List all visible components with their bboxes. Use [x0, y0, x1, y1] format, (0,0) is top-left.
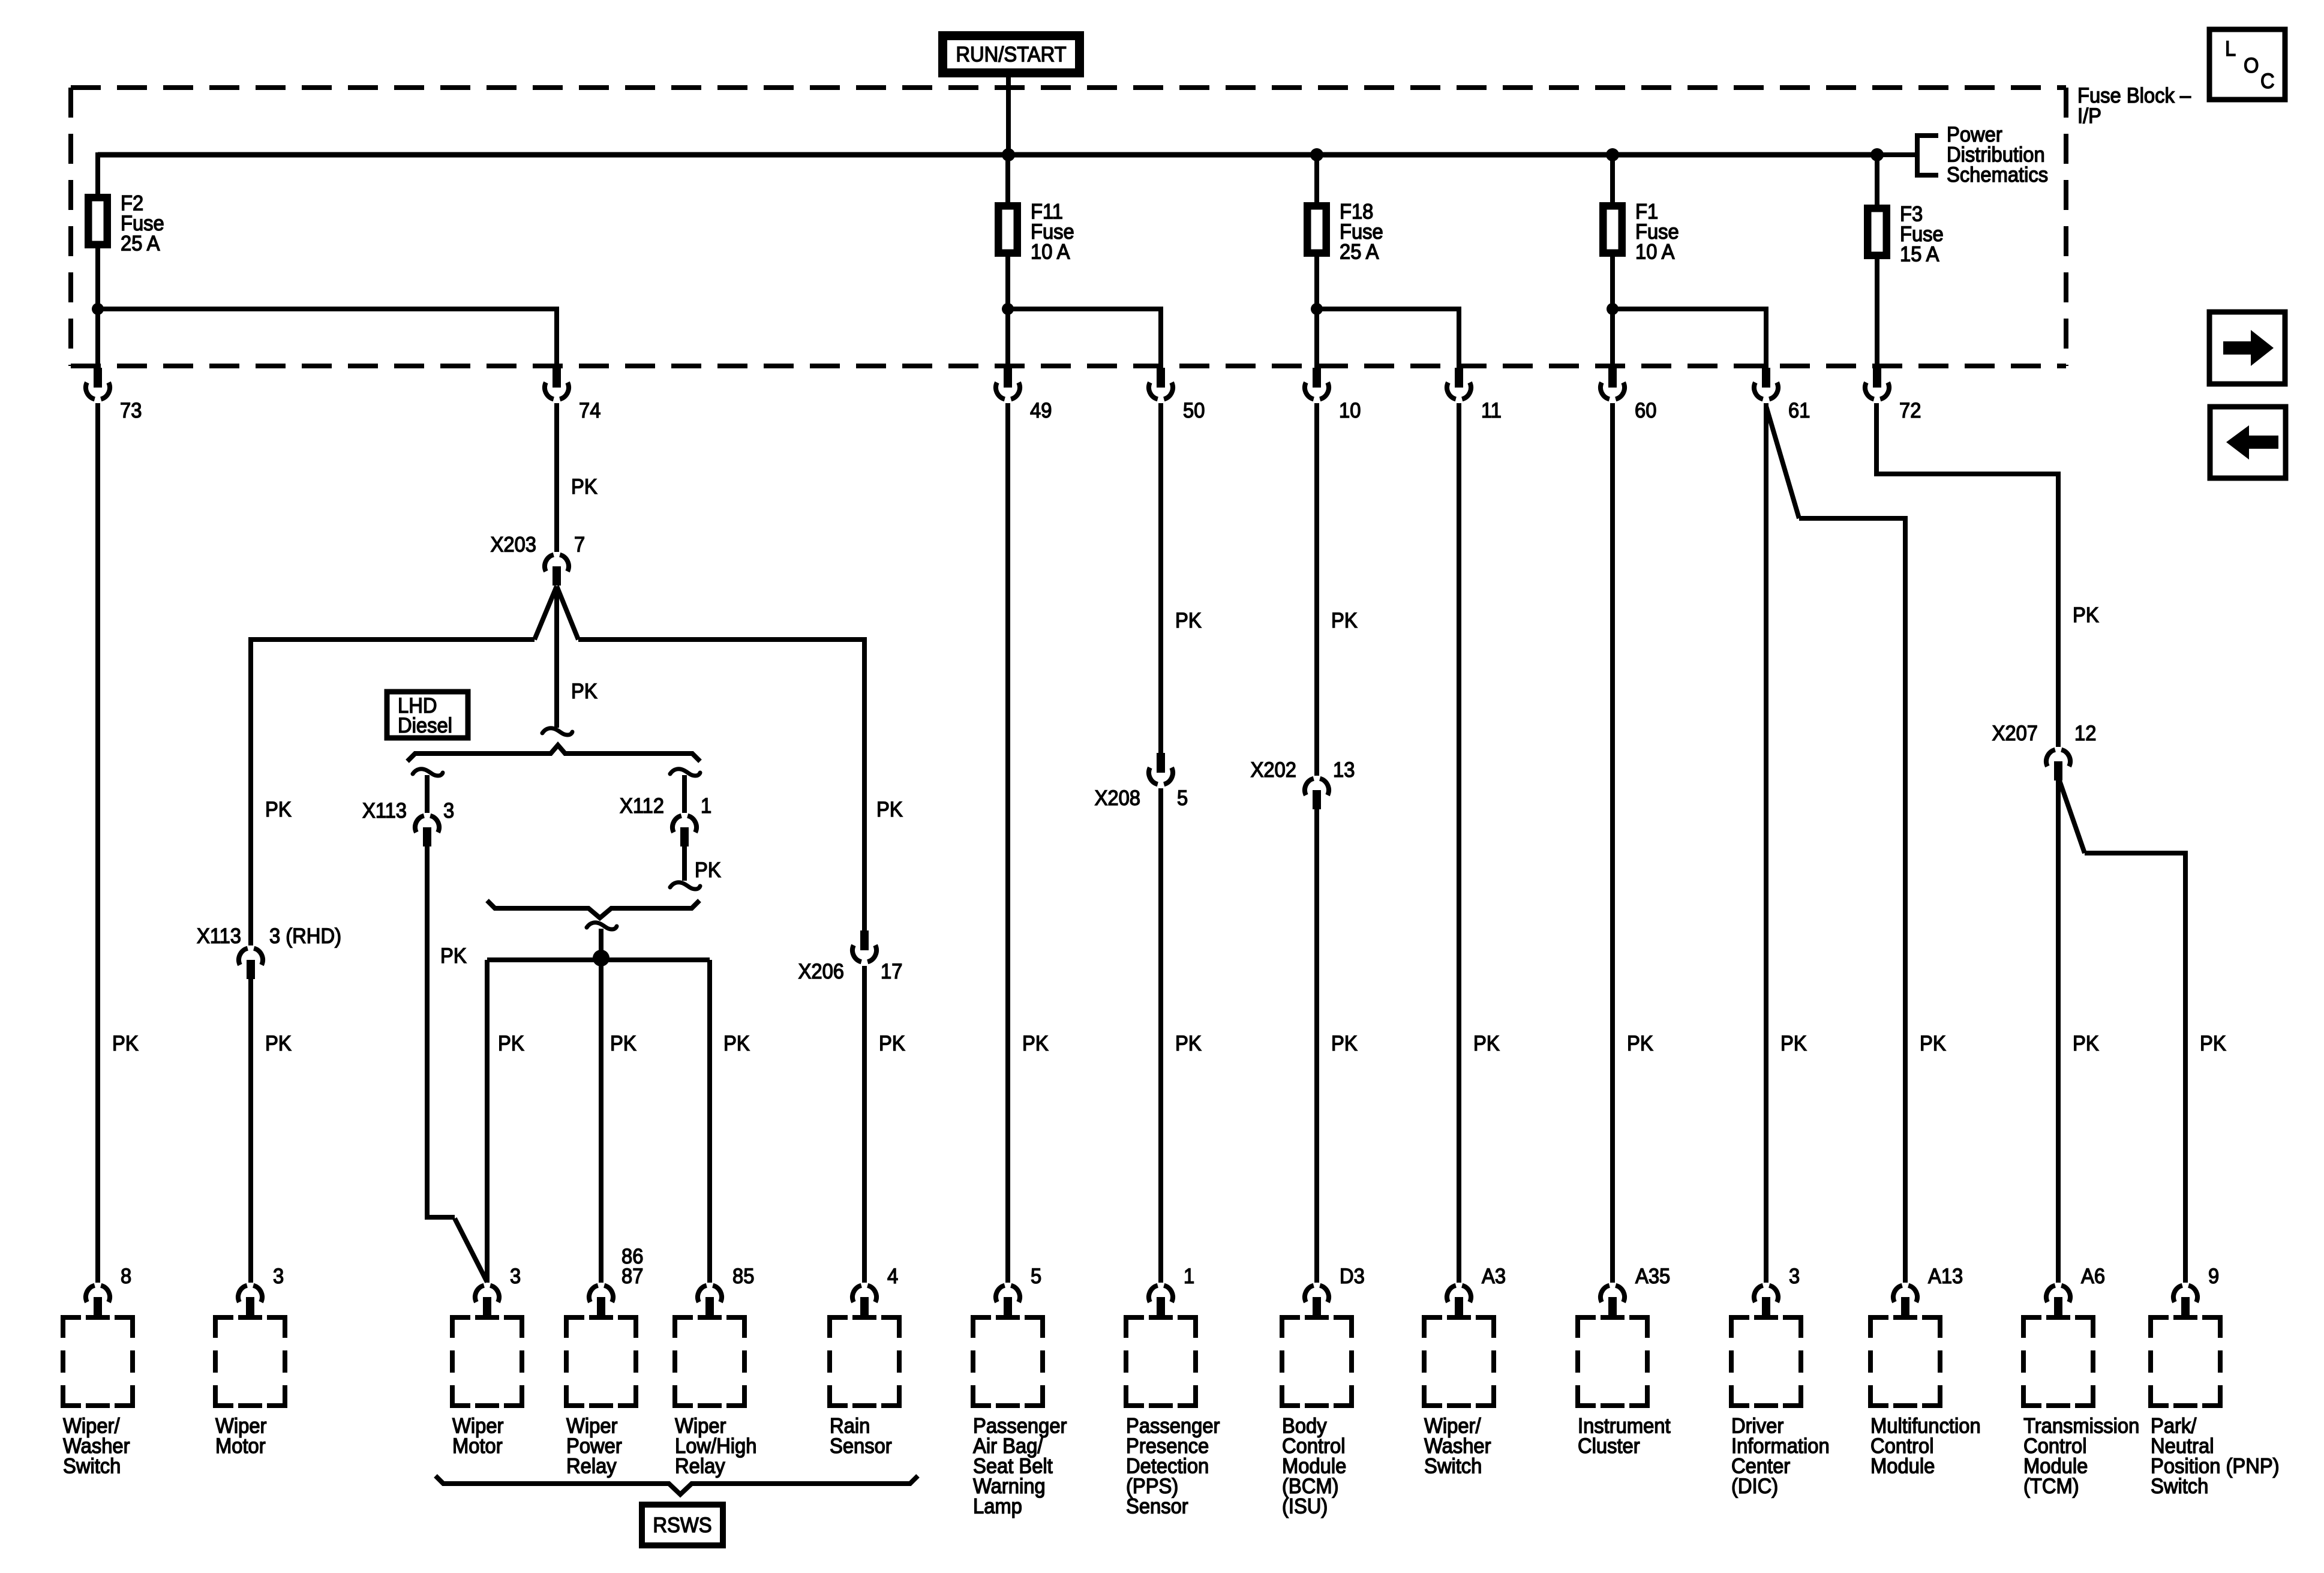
- svg-text:3: 3: [1789, 1265, 1800, 1288]
- svg-text:Motor: Motor: [452, 1434, 503, 1458]
- wire to wiper power relay: [599, 958, 603, 1283]
- svg-text:PK: PK: [112, 1032, 139, 1055]
- svg-text:PK: PK: [610, 1032, 636, 1055]
- wire X203 center down: [554, 586, 559, 728]
- wire F2 to pin 73: [95, 248, 100, 370]
- wire X203 split right diagonal: [557, 586, 578, 640]
- wire branch to multifunction control module: [1799, 518, 1905, 1283]
- wire RUN/START to bus: [1006, 77, 1011, 155]
- splice inline connector: [670, 882, 700, 889]
- connector pin 72: [1865, 368, 1889, 399]
- svg-text:Lamp: Lamp: [973, 1495, 1022, 1518]
- wire to X112 pin1: [682, 775, 687, 813]
- component Instrument Cluster: [1601, 1286, 1625, 1316]
- svg-text:4: 4: [887, 1265, 898, 1288]
- node LHD Diesel: [387, 692, 468, 738]
- wire X207 to TCM: [2056, 781, 2061, 1283]
- svg-text:85: 85: [732, 1265, 754, 1288]
- svg-text:73: 73: [120, 399, 142, 422]
- svg-text:PK: PK: [440, 944, 467, 968]
- connector X202 pin 13: [1305, 779, 1329, 809]
- wire ignition bus: [98, 152, 1877, 158]
- svg-text:PK: PK: [695, 858, 721, 882]
- svg-text:PK: PK: [2073, 1032, 2099, 1055]
- svg-text:RSWS: RSWS: [653, 1514, 711, 1537]
- junction F11 branch: [1002, 303, 1014, 315]
- svg-text:PK: PK: [571, 680, 597, 703]
- connector X207 pin 12: [2046, 750, 2070, 781]
- svg-text:A3: A3: [1482, 1265, 1506, 1288]
- svg-text:PK: PK: [1780, 1032, 1807, 1055]
- wire 10 to X202: [1314, 403, 1319, 776]
- component Wiper Motor: [238, 1286, 262, 1316]
- connector X112 pin 1: [672, 816, 696, 846]
- wire to wiper low/high relay: [707, 960, 712, 1283]
- component Passenger Air Bag/Seat Belt Warning Lamp: [996, 1286, 1020, 1316]
- svg-text:PK: PK: [1920, 1032, 1946, 1055]
- splice inline connector: [413, 769, 443, 776]
- wire 60 to instrument cluster: [1610, 403, 1615, 1283]
- wire to wiper motor: [485, 960, 490, 1283]
- svg-text:Schematics: Schematics: [1947, 163, 2048, 187]
- connector X206 pin 17: [852, 930, 876, 962]
- svg-text:PK: PK: [265, 1032, 292, 1055]
- svg-text:25 A: 25 A: [121, 232, 160, 256]
- svg-text:13: 13: [1333, 758, 1355, 782]
- svg-text:3 (RHD): 3 (RHD): [269, 924, 341, 948]
- svg-text:PK: PK: [2073, 604, 2099, 627]
- svg-text:17: 17: [881, 960, 902, 983]
- svg-text:5: 5: [1177, 786, 1188, 810]
- component Multifunction Control Module: [1893, 1286, 1917, 1316]
- junction bus/F18: [1310, 148, 1323, 161]
- node RSWS: [642, 1505, 723, 1545]
- fuse F1: [1610, 155, 1615, 202]
- svg-text:D3: D3: [1340, 1265, 1365, 1288]
- wire junction horizontal: [487, 957, 710, 962]
- connector pin 50: [1149, 368, 1173, 399]
- svg-text:A35: A35: [1635, 1265, 1670, 1288]
- junction bus/F1: [1606, 148, 1619, 161]
- svg-text:72: 72: [1899, 399, 1921, 422]
- svg-text:PK: PK: [1022, 1032, 1049, 1055]
- svg-text:10 A: 10 A: [1635, 241, 1675, 264]
- svg-text:(DIC): (DIC): [1731, 1475, 1778, 1498]
- svg-text:X202: X202: [1251, 758, 1296, 782]
- right arrow box: [2209, 312, 2285, 384]
- svg-text:49: 49: [1030, 399, 1052, 422]
- wire 11 to wiper/washer switch: [1457, 403, 1461, 1283]
- brace RSWS group: [436, 1476, 918, 1494]
- svg-text:PK: PK: [1627, 1032, 1653, 1055]
- svg-text:A6: A6: [2081, 1265, 2105, 1288]
- svg-text:I/P: I/P: [2077, 104, 2101, 128]
- junction bus/F3: [1870, 148, 1884, 161]
- brace split LHD Diesel: [407, 745, 700, 761]
- svg-text:PK: PK: [498, 1032, 524, 1055]
- wire F18 to pin 10: [1314, 257, 1319, 370]
- connector pin 49: [996, 368, 1020, 399]
- wire 49 to passenger airbag lamp: [1005, 403, 1010, 1283]
- LOC reference box: [2209, 29, 2285, 100]
- svg-text:X203: X203: [491, 533, 536, 557]
- wire 73 to wiper/washer switch: [95, 403, 100, 1283]
- junction F2 branch: [92, 303, 104, 315]
- svg-text:PK: PK: [876, 798, 903, 821]
- splice inline connector: [587, 923, 617, 929]
- connector pin 10: [1305, 368, 1329, 399]
- svg-text:(TCM): (TCM): [2023, 1475, 2079, 1498]
- wire diagonal to wiper motor pin3: [455, 1218, 487, 1282]
- svg-text:1: 1: [1184, 1265, 1194, 1288]
- wire 72 to X207: [1876, 403, 2058, 747]
- svg-text:PK: PK: [1175, 1032, 1202, 1055]
- svg-text:L: L: [2225, 37, 2236, 61]
- wire 50 to X208: [1158, 403, 1163, 753]
- fuse F2: [87, 196, 109, 247]
- svg-text:PK: PK: [1331, 1032, 1358, 1055]
- wire branch to pin 11: [1317, 309, 1459, 370]
- connector X203 pin 7: [545, 555, 569, 586]
- svg-text:Motor: Motor: [215, 1434, 266, 1458]
- svg-text:PK: PK: [1473, 1032, 1500, 1055]
- wire F3 to pin 72: [1875, 259, 1879, 370]
- svg-text:9: 9: [2208, 1265, 2219, 1288]
- svg-text:C: C: [2260, 70, 2275, 93]
- fuse F18: [1314, 155, 1319, 202]
- node RUN/START: [938, 31, 1084, 77]
- svg-text:PK: PK: [2200, 1032, 2226, 1055]
- svg-text:PK: PK: [879, 1032, 905, 1055]
- component BCM: [1305, 1286, 1329, 1316]
- component Wiper Power Relay: [589, 1286, 613, 1316]
- wire to X113 pin3: [425, 775, 430, 813]
- component Wiper Motor: [475, 1286, 499, 1316]
- svg-text:Sensor: Sensor: [830, 1434, 892, 1458]
- svg-text:Module: Module: [1870, 1455, 1935, 1478]
- svg-text:A13: A13: [1928, 1265, 1963, 1288]
- svg-text:3: 3: [443, 799, 454, 822]
- wire X208 to PPS sensor: [1158, 788, 1163, 1283]
- svg-text:O: O: [2244, 54, 2259, 77]
- wire bus corner down to F2: [95, 152, 100, 194]
- svg-text:PK: PK: [723, 1032, 750, 1055]
- wire F1 to pin 60: [1610, 257, 1615, 370]
- wire diagonal 61 branch: [1766, 406, 1799, 518]
- fuse block I/P dashed box: [71, 85, 2066, 90]
- svg-text:50: 50: [1183, 399, 1205, 422]
- svg-text:Switch: Switch: [63, 1455, 121, 1478]
- svg-text:8: 8: [121, 1265, 131, 1288]
- svg-text:1: 1: [701, 794, 711, 818]
- svg-text:25 A: 25 A: [1340, 241, 1379, 264]
- svg-text:X207: X207: [1992, 722, 2038, 745]
- connector X208 pin 5: [1149, 753, 1173, 784]
- connector pin 11: [1447, 368, 1471, 399]
- svg-text:Relay: Relay: [566, 1455, 617, 1478]
- svg-text:PK: PK: [571, 475, 597, 499]
- svg-text:Sensor: Sensor: [1126, 1495, 1188, 1518]
- junction F1 branch: [1607, 303, 1619, 315]
- svg-text:7: 7: [574, 533, 585, 557]
- svg-text:PK: PK: [265, 798, 292, 821]
- component Wiper/Washer Switch: [86, 1286, 110, 1316]
- svg-text:10 A: 10 A: [1031, 241, 1070, 264]
- wire branch to PNP switch: [2085, 853, 2185, 1283]
- wire F11 to pin 49: [1005, 257, 1010, 370]
- component Rain Sensor: [852, 1286, 876, 1316]
- svg-text:5: 5: [1031, 1265, 1041, 1288]
- component TCM: [2046, 1286, 2070, 1316]
- wire branch to pin 50: [1008, 309, 1161, 370]
- component Wiper Low/High Relay: [698, 1286, 722, 1316]
- wire X112 down: [682, 846, 687, 881]
- svg-text:3: 3: [510, 1265, 521, 1288]
- connector pin 73: [86, 368, 110, 399]
- wire X202 to BCM: [1314, 809, 1319, 1283]
- component PPS Sensor: [1149, 1286, 1173, 1316]
- junction bus/F11: [1002, 148, 1015, 161]
- wire X113-3 down: [427, 846, 455, 1217]
- wire diagonal X207 branch: [2059, 781, 2085, 853]
- left arrow box: [2210, 407, 2286, 478]
- splice inline connector: [670, 769, 700, 776]
- svg-text:Switch: Switch: [2151, 1475, 2208, 1498]
- connector pin 60: [1601, 368, 1625, 399]
- brace gather: [487, 900, 699, 918]
- junction splice: [593, 950, 609, 966]
- wire X203 split left diagonal: [535, 586, 557, 640]
- component DIC: [1754, 1286, 1778, 1316]
- svg-text:10: 10: [1339, 399, 1361, 422]
- wire to junction: [599, 929, 603, 958]
- wire X206 to rain sensor: [862, 966, 867, 1283]
- svg-text:PK: PK: [1331, 609, 1358, 632]
- wire branch to pin 61: [1613, 309, 1766, 370]
- connector pin 74: [545, 368, 569, 399]
- svg-text:(ISU): (ISU): [1282, 1495, 1328, 1518]
- svg-text:11: 11: [1481, 399, 1502, 422]
- svg-text:X113: X113: [197, 924, 241, 948]
- svg-text:60: 60: [1635, 399, 1656, 422]
- svg-text:74: 74: [579, 399, 600, 422]
- component Wiper/Washer Switch: [1447, 1286, 1471, 1316]
- svg-text:15 A: 15 A: [1900, 243, 1939, 266]
- wire branch to pin 74: [98, 309, 557, 370]
- svg-text:RUN/START: RUN/START: [956, 43, 1066, 67]
- svg-text:Diesel: Diesel: [398, 714, 452, 737]
- svg-text:61: 61: [1788, 399, 1810, 422]
- svg-text:12: 12: [2074, 722, 2096, 745]
- svg-text:3: 3: [273, 1265, 284, 1288]
- wire left branch to X113 (RHD): [251, 640, 535, 945]
- svg-text:Switch: Switch: [1424, 1455, 1482, 1478]
- node Power Distribution Schematics: [1877, 152, 1917, 157]
- wire 61 to DIC: [1764, 403, 1768, 1283]
- splice inline connector: [542, 728, 572, 735]
- svg-text:X112: X112: [620, 794, 664, 818]
- wire right branch to X206: [578, 640, 864, 930]
- component PNP Switch: [2173, 1286, 2197, 1316]
- connector pin 61: [1754, 368, 1778, 399]
- svg-text:X113: X113: [362, 799, 407, 822]
- fuse F11: [1005, 155, 1010, 202]
- connector X113 pin 3 (RHD): [239, 948, 263, 979]
- svg-text:87: 87: [621, 1265, 643, 1288]
- svg-text:Cluster: Cluster: [1578, 1434, 1640, 1458]
- wire 74 to X203: [554, 403, 559, 552]
- svg-text:Relay: Relay: [675, 1455, 725, 1478]
- connector X113 pin 3: [415, 816, 439, 846]
- wire X113 RHD to wiper motor: [248, 979, 253, 1283]
- fuse F3: [1875, 155, 1879, 205]
- junction F18 branch: [1311, 303, 1323, 315]
- svg-text:X206: X206: [798, 960, 844, 983]
- svg-text:X208: X208: [1095, 786, 1140, 810]
- svg-text:PK: PK: [1175, 609, 1202, 632]
